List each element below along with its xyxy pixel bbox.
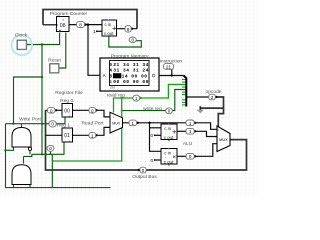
svg-text:21: 21 — [166, 65, 172, 70]
svg-text:Reg 0: Reg 0 — [60, 98, 73, 104]
svg-text:MUX: MUX — [219, 137, 228, 142]
svg-text:sel: sel — [110, 86, 115, 90]
svg-text:00 00 00 00: 00 00 00 00 — [113, 79, 149, 85]
svg-text:0: 0 — [151, 133, 154, 138]
svg-text:MUX: MUX — [112, 121, 120, 125]
svg-text:Register File: Register File — [55, 90, 83, 96]
svg-text:14 00 00: 14 00 00 — [122, 73, 148, 79]
svg-text:ALU: ALU — [183, 141, 193, 147]
svg-text:Read Port: Read Port — [81, 121, 104, 127]
svg-text:instruction: instruction — [160, 59, 183, 65]
svg-text:08: 08 — [60, 23, 66, 29]
svg-text:Write Port: Write Port — [19, 117, 41, 123]
svg-text:write reg: write reg — [143, 106, 162, 112]
svg-text:Reset: Reset — [48, 57, 61, 63]
svg-text:c in: c in — [164, 150, 171, 155]
svg-text:Program Counter: Program Counter — [50, 11, 88, 17]
svg-text:0: 0 — [151, 158, 154, 163]
svg-text:01: 01 — [64, 133, 70, 139]
svg-text:Output Bus: Output Bus — [132, 174, 157, 180]
svg-text:×: × — [172, 154, 176, 161]
svg-text:31 34 31 24: 31 34 31 24 — [113, 68, 149, 74]
svg-text:c in: c in — [104, 22, 111, 27]
svg-text:Clock: Clock — [15, 33, 28, 39]
svg-text:4: 4 — [109, 68, 112, 74]
svg-text:c: c — [109, 80, 112, 85]
svg-text:opcode: opcode — [205, 89, 221, 95]
svg-text:read reg: read reg — [107, 93, 125, 99]
svg-text:0: 0 — [109, 62, 112, 68]
svg-text:8: 8 — [109, 73, 112, 79]
svg-text:+: + — [112, 23, 117, 32]
svg-text:1: 1 — [93, 29, 96, 34]
svg-text:21: 21 — [113, 73, 119, 79]
svg-text:21 34 31 34: 21 34 31 34 — [113, 62, 149, 68]
svg-text:c in: c in — [164, 126, 171, 131]
svg-text:+: + — [172, 127, 177, 136]
svg-text:00: 00 — [64, 108, 70, 114]
svg-text:Reg 1: Reg 1 — [57, 123, 70, 129]
svg-text:Program Memory: Program Memory — [111, 53, 149, 59]
